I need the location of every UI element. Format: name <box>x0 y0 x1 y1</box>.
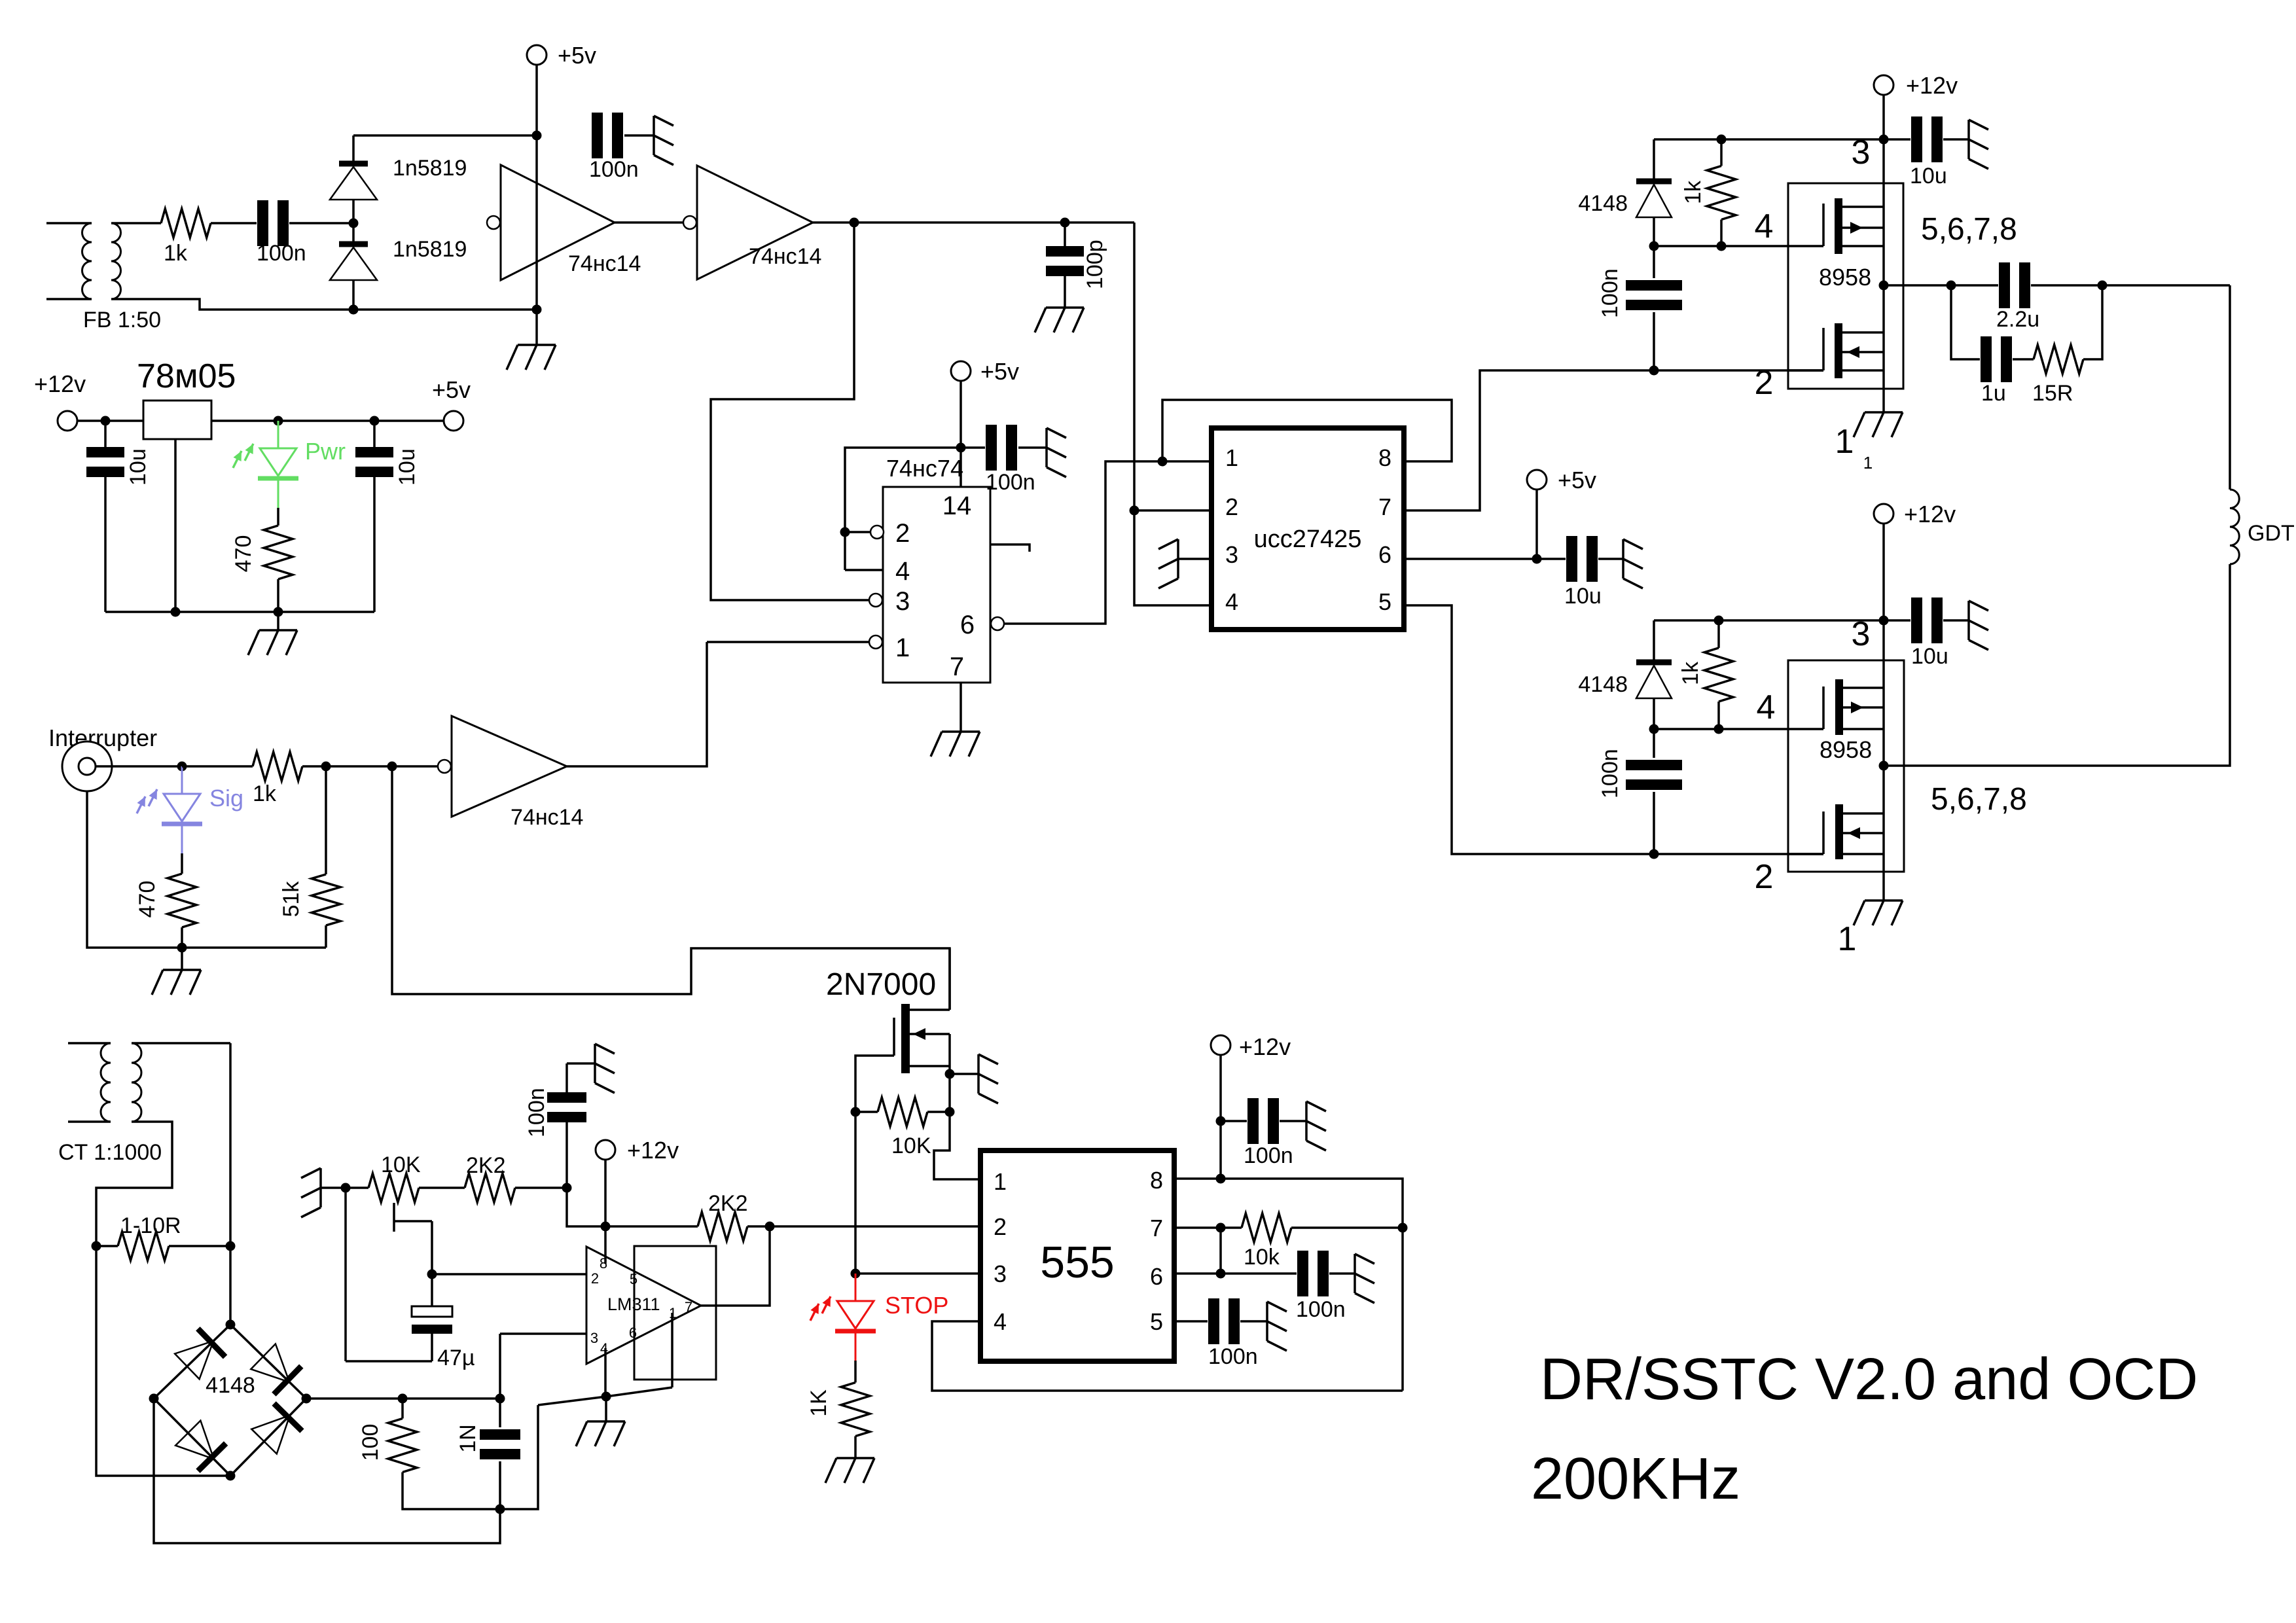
ground (regulator) <box>277 612 279 630</box>
svg-text:1: 1 <box>1838 920 1857 958</box>
resistor 1k (FB input) <box>161 209 211 238</box>
inverter 74hc14 A <box>501 165 615 280</box>
resistor 470 (Sig LED) <box>181 853 183 874</box>
ground (interrupter) <box>181 948 183 970</box>
inverter 74hc14 C <box>452 716 567 817</box>
ground (100p) <box>1046 306 1084 309</box>
resistor 51k <box>325 766 327 874</box>
wire LM311 grounds <box>671 1313 673 1387</box>
svg-text:74нс74: 74нс74 <box>886 455 963 482</box>
wire 555 pin7 to pin6 <box>1219 1228 1222 1274</box>
svg-text:2: 2 <box>591 1270 599 1287</box>
capacitor 10u (12v side) <box>104 421 107 448</box>
svg-text:Pwr: Pwr <box>305 438 346 465</box>
pin 3 bubble <box>869 594 882 607</box>
resistor 10K (gate-source) <box>878 1097 927 1126</box>
node FB input junction <box>349 219 359 228</box>
pot wiper <box>393 1203 395 1232</box>
svg-text:3: 3 <box>1852 134 1871 171</box>
svg-text:4: 4 <box>1755 207 1774 245</box>
diode 4148 (block2) <box>1653 620 1655 662</box>
svg-text:100n: 100n <box>524 1088 549 1137</box>
IC 74hc74 flip-flop <box>883 487 990 683</box>
IC ucc27425 gate driver <box>1211 428 1404 630</box>
svg-text:10u: 10u <box>1911 644 1948 669</box>
wire interrupter ground return <box>87 791 326 948</box>
wire 2N7000 source to 555 pin1 <box>948 1074 951 1112</box>
svg-text:10K: 10K <box>381 1152 421 1177</box>
svg-text:4: 4 <box>1757 688 1776 726</box>
diode 1n5819 upper <box>352 135 355 164</box>
power +5v (74hc74) <box>951 361 971 381</box>
resistor 2K2 (first) <box>465 1173 515 1202</box>
svg-text:4: 4 <box>895 557 910 586</box>
ground (block2 10u) <box>1967 601 1970 640</box>
svg-text:10k: 10k <box>1244 1245 1280 1270</box>
resistor 10K potentiometer <box>368 1173 419 1202</box>
svg-text:100n: 100n <box>1208 1344 1258 1369</box>
svg-text:+12v: +12v <box>1239 1033 1291 1060</box>
wire block1 output <box>1884 284 1998 287</box>
wire bottom rail to LM311 ground node <box>500 1405 538 1509</box>
svg-text:100n: 100n <box>1598 749 1623 798</box>
capacitor 100n (555 Vcc) <box>1221 1120 1247 1122</box>
svg-text:STOP: STOP <box>885 1292 948 1319</box>
pin 5 stub <box>990 544 1030 552</box>
svg-text:1: 1 <box>1835 423 1854 461</box>
wire LM311 pin3 <box>500 1332 586 1335</box>
svg-text:1u: 1u <box>1981 381 2006 406</box>
capacitor 100n (block2 gate) <box>1653 729 1655 758</box>
wire FB bottom to ground rail <box>111 299 537 310</box>
svg-text:51k: 51k <box>279 881 304 918</box>
svg-text:100n: 100n <box>257 241 306 266</box>
svg-text:5,6,7,8: 5,6,7,8 <box>1921 212 2017 247</box>
svg-text:1k: 1k <box>1681 180 1706 204</box>
svg-text:2K2: 2K2 <box>466 1153 506 1178</box>
wire +12v rail block1 <box>1882 95 1885 412</box>
svg-text:3: 3 <box>895 587 910 616</box>
ground (10K pot) <box>319 1168 322 1207</box>
svg-text:100n: 100n <box>1244 1143 1293 1168</box>
bridge diode D1 (left-top) <box>198 1329 225 1357</box>
svg-text:6: 6 <box>1378 541 1391 568</box>
resistor 1K (STOP LED) <box>854 1361 857 1383</box>
ground (comparator 100n) <box>594 1044 596 1083</box>
wire gate 4 (block1) <box>1654 245 1823 247</box>
svg-text:10u: 10u <box>395 448 420 486</box>
resistor 100 (burden) <box>401 1399 404 1419</box>
svg-text:3: 3 <box>994 1260 1007 1287</box>
svg-text:2: 2 <box>994 1213 1007 1240</box>
transformer FB 1:50 <box>46 222 92 224</box>
diode 1n5819 lower <box>352 223 355 244</box>
transistor Q1 upper 8958 <box>1822 204 1825 246</box>
capacitor 10u (5v side) <box>373 421 376 448</box>
wire gate 4 (block2) <box>1654 728 1823 730</box>
resistor 10k (555) <box>1174 1226 1242 1229</box>
capacitor 1u + resistor 15R branch <box>1951 285 1980 359</box>
svg-text:1N: 1N <box>456 1424 480 1452</box>
svg-text:100n: 100n <box>1598 268 1623 318</box>
resistor 470 (Pwr LED) <box>277 508 279 526</box>
resistor 1k (block1 gate) <box>1720 139 1723 166</box>
node diode lower to FB return <box>349 305 359 315</box>
svg-text:100n: 100n <box>1296 1297 1346 1322</box>
wire ucc pin7 to lower gate of block1 <box>1404 370 1823 510</box>
svg-text:1k: 1k <box>1678 661 1703 685</box>
power +12v (block1) <box>1874 75 1893 95</box>
svg-text:6: 6 <box>1150 1263 1163 1290</box>
svg-text:+12v: +12v <box>1906 72 1958 99</box>
svg-text:7: 7 <box>950 652 964 681</box>
resistor 2K2 (second) <box>698 1212 747 1241</box>
svg-text:6: 6 <box>629 1325 637 1341</box>
wire bridge negative to bottom rail <box>154 1399 500 1543</box>
svg-text:7: 7 <box>1150 1215 1163 1241</box>
bridge diode D4 (bottom-right) <box>274 1404 302 1431</box>
pin 1 bubble <box>869 635 882 649</box>
capacitor 100n (input stage decoupling) <box>592 113 603 158</box>
power +5v (input stage) <box>527 45 547 65</box>
svg-text:1k: 1k <box>164 241 188 266</box>
svg-text:1n5819: 1n5819 <box>393 237 467 262</box>
svg-text:2.2u: 2.2u <box>1996 307 2039 332</box>
svg-text:4148: 4148 <box>206 1373 255 1398</box>
transformer CT 1:1000 <box>68 1042 111 1044</box>
ground (74hc74 pin7) <box>960 683 962 732</box>
capacitor 47u electrolytic <box>412 1306 452 1317</box>
svg-text:3: 3 <box>590 1330 598 1346</box>
wire 2K2 node to comparator rail <box>567 1188 698 1226</box>
wire CT to bridge <box>229 1043 232 1325</box>
capacitor 2.2u <box>1999 262 2010 308</box>
wire 47u node to LM311 pin2 <box>432 1273 586 1275</box>
svg-text:100n: 100n <box>986 470 1035 495</box>
ground (ucc 10u) <box>1622 539 1624 579</box>
svg-text:10u: 10u <box>1910 164 1947 188</box>
svg-text:74нс14: 74нс14 <box>568 251 641 276</box>
connector BNC interrupter <box>62 741 112 791</box>
svg-text:CT 1:1000: CT 1:1000 <box>58 1140 162 1165</box>
svg-text:47µ: 47µ <box>437 1346 475 1370</box>
regulator 78M05 <box>143 401 211 439</box>
LED Pwr green <box>278 421 279 448</box>
capacitor 100n (555 pin6) <box>1297 1251 1308 1296</box>
wire 555 pin6 100n <box>1174 1272 1297 1275</box>
svg-text:8: 8 <box>1150 1167 1163 1194</box>
capacitor 10u (block1 +12v) <box>1884 138 1910 141</box>
ground (input stage) <box>518 344 556 346</box>
diode 4148 (block1) <box>1653 139 1655 181</box>
bridge diode D2 (top-right) <box>274 1366 301 1395</box>
svg-text:74нс14: 74нс14 <box>749 244 821 269</box>
svg-text:+5v: +5v <box>432 376 471 403</box>
MOSFET pair 8958 block2 box <box>1788 660 1904 872</box>
svg-text:1: 1 <box>1863 453 1873 473</box>
svg-text:78м05: 78м05 <box>137 357 236 395</box>
ground (ucc pin3) <box>1178 558 1211 560</box>
power +12v input <box>58 411 77 431</box>
svg-text:100n: 100n <box>589 157 639 182</box>
svg-text:8958: 8958 <box>1819 264 1871 291</box>
ground (block2 source) <box>1865 899 1903 902</box>
ground (block1 10u) <box>1967 120 1970 159</box>
wire inverter bus to ucc pins 2 and 4 <box>1134 223 1211 605</box>
MOSFET pair 8958 block1 box <box>1788 183 1903 389</box>
capacitor 1N <box>499 1399 501 1427</box>
wire +12v rail block2 <box>1882 524 1885 901</box>
ground (555 pin5 100n) <box>1266 1302 1268 1341</box>
ground (LM311) <box>587 1420 625 1423</box>
svg-text:10u: 10u <box>126 448 151 486</box>
wire GDT to block2 output <box>1884 564 2230 766</box>
svg-text:4: 4 <box>1225 588 1238 615</box>
svg-text:1k: 1k <box>253 781 277 806</box>
svg-text:+12v: +12v <box>34 370 86 397</box>
transistor Q3 upper 8958 <box>1822 687 1825 729</box>
svg-text:8958: 8958 <box>1820 736 1872 763</box>
svg-text:2: 2 <box>1225 493 1238 520</box>
capacitor 100n (comparator) <box>565 1122 568 1188</box>
wire CT return to bridge bottom <box>96 1246 230 1476</box>
diode bridge 4148 <box>154 1325 230 1399</box>
svg-text:Sig: Sig <box>209 785 243 811</box>
wire interrupter to 2N7000 drain <box>392 766 950 1010</box>
svg-text:1: 1 <box>1225 444 1238 471</box>
capacitor 100n (74hc74 decoupling) <box>961 446 985 449</box>
wire ucc pin5 to lower gate of block2 <box>1404 605 1823 854</box>
svg-text:GDT: GDT <box>2248 521 2295 546</box>
svg-text:DR/SSTC V2.0 and OCD: DR/SSTC V2.0 and OCD <box>1540 1347 2198 1412</box>
svg-text:LM311: LM311 <box>607 1294 660 1314</box>
svg-text:1K: 1K <box>806 1389 831 1417</box>
capacitor 10u (block2 +12v) <box>1884 619 1910 622</box>
wire 555 bottom loop to pin4 <box>932 1321 1403 1391</box>
wire inverter B output bus <box>813 221 1134 224</box>
wire 555 pin8 loop <box>1174 1179 1403 1391</box>
svg-text:100: 100 <box>358 1424 383 1461</box>
transistor Q2 lower 8958 <box>1788 369 1823 372</box>
svg-text:10K: 10K <box>891 1133 931 1158</box>
resistor 1k (interrupter) <box>182 765 253 768</box>
svg-text:470: 470 <box>231 535 256 573</box>
wire ucc pin8 to pin1 loop <box>1162 400 1452 461</box>
svg-text:555: 555 <box>1040 1238 1114 1287</box>
wire diode to +5v rail <box>353 134 537 137</box>
svg-text:5: 5 <box>1378 588 1391 615</box>
svg-text:+5v: +5v <box>558 42 596 69</box>
ground (STOP LED) <box>836 1457 874 1459</box>
svg-text:FB 1:50: FB 1:50 <box>83 308 161 332</box>
ground (555 pin6 100n) <box>1354 1254 1356 1293</box>
power +5v (ucc) <box>1527 470 1547 490</box>
wire bridge positive rail <box>306 1397 500 1400</box>
ground (2N7000) <box>977 1054 980 1094</box>
svg-text:10u: 10u <box>1564 584 1602 609</box>
transistor Q4 lower 8958 <box>1788 853 1823 855</box>
bridge diode D3 (left-bottom) <box>198 1444 226 1471</box>
svg-text:+5v: +5v <box>1558 467 1596 493</box>
wire inverter A out to inverter B <box>615 221 683 224</box>
svg-text:6: 6 <box>960 611 975 639</box>
capacitor 100n (555 pin5) <box>1174 1320 1208 1323</box>
svg-text:200KHz: 200KHz <box>1531 1446 1740 1512</box>
svg-text:14: 14 <box>942 491 972 520</box>
svg-text:1: 1 <box>895 633 910 662</box>
wire 2N7000 gate <box>855 1056 894 1274</box>
pin 6 bubble to ucc pin1 <box>991 617 1004 630</box>
ground (block1 source) <box>1865 411 1903 414</box>
svg-text:3: 3 <box>1225 541 1238 568</box>
svg-text:2K2: 2K2 <box>708 1191 748 1216</box>
svg-text:1-10R: 1-10R <box>120 1213 181 1238</box>
svg-text:4: 4 <box>994 1308 1007 1335</box>
ground (555 Vcc 100n) <box>1305 1101 1308 1141</box>
svg-text:74нс14: 74нс14 <box>511 805 583 830</box>
svg-text:2: 2 <box>1755 858 1774 896</box>
capacitor 100n (block1 gate) <box>1653 246 1655 278</box>
resistor 1k (block2 gate) <box>1717 620 1720 648</box>
comparator LM311 <box>586 1247 701 1364</box>
svg-text:3: 3 <box>1852 615 1871 653</box>
svg-text:5: 5 <box>630 1271 637 1287</box>
svg-text:+5v: +5v <box>980 358 1019 385</box>
wire inverter C output to 74hc74 pin1 <box>567 642 707 766</box>
svg-text:+12v: +12v <box>627 1137 679 1164</box>
svg-text:4148: 4148 <box>1578 672 1628 697</box>
power +12v (LM311) <box>596 1140 615 1160</box>
svg-text:4148: 4148 <box>1578 191 1628 216</box>
wire LM311 output to rail <box>701 1226 770 1306</box>
svg-text:+12v: +12v <box>1904 501 1956 527</box>
svg-text:2: 2 <box>895 519 910 548</box>
svg-text:2: 2 <box>1755 364 1774 402</box>
svg-text:15R: 15R <box>2032 381 2073 406</box>
wire 555 pin3 to STOP LED <box>855 1272 980 1275</box>
svg-text:8: 8 <box>1378 444 1391 471</box>
svg-text:ucc27425: ucc27425 <box>1254 526 1362 553</box>
svg-text:1: 1 <box>994 1168 1007 1195</box>
svg-text:5: 5 <box>1150 1308 1163 1335</box>
wire to GDT <box>2229 285 2231 490</box>
pin 2 bubble and tie to pin 4 <box>870 526 884 539</box>
power +5v output <box>444 411 463 431</box>
svg-text:7: 7 <box>1378 493 1391 520</box>
LED STOP red <box>855 1274 857 1301</box>
inductor GDT <box>2230 490 2239 564</box>
svg-text:7: 7 <box>685 1299 692 1315</box>
svg-text:4: 4 <box>600 1340 608 1357</box>
svg-text:8: 8 <box>600 1255 607 1272</box>
svg-text:2N7000: 2N7000 <box>826 967 936 1002</box>
wire ucc pin6 +5v <box>1404 558 1566 560</box>
capacitor 100p to ground <box>1064 223 1066 248</box>
svg-text:100p: 100p <box>1083 240 1107 289</box>
wire regulator ground rail <box>105 611 374 613</box>
capacitor 100n (FB coupling) <box>257 200 268 246</box>
inverter 74hc14 B <box>697 166 813 279</box>
LED Sig blue <box>181 766 183 794</box>
ground (input stage decoupling) <box>653 116 655 155</box>
IC 555 timer <box>980 1150 1174 1361</box>
wire +5v vertical through inverter <box>535 65 538 345</box>
wire pin2/4 tie to +5v rail <box>845 448 961 532</box>
svg-text:5,6,7,8: 5,6,7,8 <box>1931 782 2027 817</box>
ground (74hc74 decoupling) <box>1045 428 1048 467</box>
wire 2N7000 source to ground <box>948 1066 951 1074</box>
capacitor 10u (ucc +5v) <box>1566 536 1577 582</box>
resistor 1-10R <box>118 1232 169 1260</box>
svg-text:470: 470 <box>135 881 160 918</box>
wire feedback to 74hc74 pin3 <box>711 223 870 600</box>
power +12v (555) <box>1211 1035 1230 1055</box>
svg-text:1n5819: 1n5819 <box>393 156 467 181</box>
power +12v (block2) <box>1874 504 1893 524</box>
